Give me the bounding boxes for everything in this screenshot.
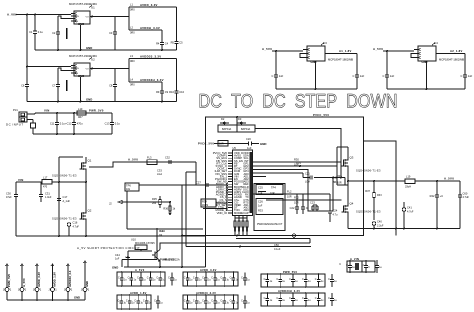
svg-text:1uF: 1uF	[258, 204, 263, 207]
svg-text:A2_1.8V: A2_1.8V	[450, 49, 463, 53]
svg-text:A_5V0: A_5V0	[128, 157, 138, 161]
ground rail left fets	[16, 235, 206, 237]
testpoint TP8	[402, 208, 406, 212]
svg-text:D3: D3	[238, 117, 242, 121]
wire L19 to output	[415, 180, 460, 182]
svg-text:C2: C2	[52, 31, 56, 35]
wire base y251	[128, 250, 152, 252]
wire routing y246.5	[186, 246, 311, 248]
capacitor C2	[57, 16, 59, 32]
svg-text:10R: 10R	[219, 143, 224, 146]
svg-text:GND: GND	[78, 22, 84, 26]
svg-text:VDD_IO: VDD_IO	[217, 211, 228, 215]
capacitor C1	[34, 15, 36, 32]
wire bottom connect	[127, 228, 203, 230]
svg-text:FL3: FL3	[147, 155, 152, 159]
resistor box R34	[201, 199, 216, 207]
svg-text:VIN: VIN	[75, 16, 79, 18]
wire Q3 drain up	[347, 147, 349, 156]
wire pwr_5v0 tap	[122, 259, 157, 261]
svg-text:C10: C10	[179, 90, 184, 94]
svg-text:+C: +C	[440, 194, 444, 198]
svg-text:C: C	[118, 277, 120, 280]
svg-text:C: C	[346, 264, 348, 267]
svg-text:PVCC_5V0: PVCC_5V0	[198, 141, 214, 145]
svg-text:C16: C16	[73, 221, 78, 225]
svg-text:A_1uF: A_1uF	[63, 200, 71, 203]
svg-text:4.7uF: 4.7uF	[463, 196, 470, 199]
svg-text:1uF: 1uF	[115, 258, 120, 261]
wire U1 output	[90, 16, 129, 18]
svg-text:C30: C30	[6, 192, 11, 196]
svg-text:DC TO DC STEP DOWN: DC TO DC STEP DOWN	[199, 92, 398, 113]
svg-text:Q4: Q4	[350, 202, 354, 206]
capacitor C6	[26, 67, 28, 85]
wire PJ1 pin2 ground drop	[27, 119, 33, 121]
snubber block boxes	[254, 184, 285, 231]
controller IC U5 body	[233, 150, 253, 216]
svg-text:AVDD_1.8V: AVDD_1.8V	[52, 272, 56, 287]
svg-text:AVDD_3.3V: AVDD_3.3V	[37, 272, 41, 287]
svg-text:PWR_5V0: PWR_5V0	[89, 109, 104, 113]
output wire	[436, 53, 465, 55]
wire x157 junction	[156, 251, 158, 260]
svg-text:C: C	[461, 74, 463, 78]
svg-text:LGA: LGA	[305, 181, 310, 184]
wire Q2 source	[85, 223, 87, 236]
svg-text:470u: 470u	[77, 121, 83, 125]
diode D2 BAT54	[222, 122, 227, 125]
svg-text:1R: 1R	[159, 234, 162, 237]
ground rail DC input	[33, 133, 112, 135]
inductor L4 wire AVDD33H	[129, 81, 162, 83]
transistor Q4 nfet	[343, 206, 345, 213]
junction column	[227, 182, 229, 184]
svg-text:0R0: 0R0	[130, 84, 135, 87]
svg-text:FL4: FL4	[159, 229, 164, 233]
svg-text:R34: R34	[202, 200, 207, 204]
svg-text:R31: R31	[337, 174, 342, 178]
svg-text:33uH: 33uH	[405, 186, 411, 189]
capacitor C4	[161, 30, 163, 42]
svg-text:AVDD33_3.3: AVDD33_3.3	[68, 270, 72, 287]
svg-text:0.1u: 0.1u	[38, 30, 44, 34]
IC right pins	[253, 161, 267, 163]
decoupling cap bank AVDD_3.3V	[183, 272, 238, 286]
transistor Q5 npn	[154, 252, 156, 259]
svg-text:+C12: +C12	[65, 121, 72, 125]
svg-text:1uF: 1uF	[258, 192, 263, 195]
wire U2 input loop	[58, 68, 71, 71]
wire HDRV to Q3 gate	[266, 161, 342, 163]
wire U2 output	[90, 68, 129, 70]
svg-text:R35: R35	[152, 197, 157, 201]
ground rail	[387, 88, 465, 90]
svg-text:MCP1804T-1802/MB: MCP1804T-1802/MB	[439, 58, 464, 62]
box TP6	[125, 183, 139, 191]
svg-text:GND: GND	[85, 281, 89, 287]
svg-text:L11: L11	[125, 255, 130, 259]
svg-text:C23: C23	[310, 201, 315, 205]
svg-text:L18: L18	[333, 176, 338, 180]
inductor L19	[405, 179, 415, 184]
svg-text:3R3: 3R3	[333, 181, 338, 184]
svg-text:C: C	[126, 300, 128, 303]
node branch vertical block2	[128, 59, 130, 83]
BAT54 box cells	[218, 125, 237, 132]
svg-text:U5: U5	[233, 146, 237, 150]
svg-text:D2: D2	[221, 117, 225, 121]
svg-text:A_5V0: A_5V0	[262, 47, 272, 51]
svg-text:R9: R9	[156, 90, 160, 94]
svg-text:GND: GND	[112, 265, 118, 269]
svg-text:C22: C22	[290, 206, 295, 210]
capacitor C42 output bulk	[436, 181, 438, 195]
ferrite FL1	[218, 141, 228, 147]
svg-text:C: C	[147, 277, 149, 280]
svg-text:C: C	[241, 277, 243, 280]
svg-text:0R0: 0R0	[130, 32, 135, 35]
svg-text:A_5V0: A_5V0	[444, 177, 454, 181]
voltage regulator U2 (MCP1725T-3302E/MC)	[74, 63, 90, 76]
svg-text:PWR_5V0: PWR_5V0	[7, 273, 11, 287]
svg-text:C: C	[276, 297, 278, 300]
svg-text:C: C	[134, 300, 136, 303]
svg-text:C7: C7	[52, 83, 56, 87]
IC left pins	[228, 152, 233, 154]
svg-text:4.7u: 4.7u	[333, 214, 338, 217]
svg-text:C17: C17	[63, 195, 68, 199]
svg-text:1uF: 1uF	[360, 74, 365, 78]
wire Q1 drain	[85, 157, 87, 159]
ground rail block1	[35, 49, 177, 51]
svg-text:C44: C44	[115, 253, 120, 257]
svg-text:VO: VO	[86, 16, 89, 18]
svg-text:AVDD33_3.3V: AVDD33_3.3V	[140, 55, 161, 59]
svg-text:TP6: TP6	[126, 184, 131, 188]
svg-text:VIN: VIN	[75, 68, 79, 70]
svg-text:C: C	[264, 278, 266, 281]
svg-text:Q3: Q3	[350, 156, 354, 160]
wire left y185 into IC	[175, 184, 227, 186]
svg-text:AVDD33H_3.3V: AVDD33H_3.3V	[140, 78, 164, 82]
svg-text:C: C	[220, 277, 222, 280]
svg-text:LGA: LGA	[157, 173, 162, 176]
svg-text:C21: C21	[305, 172, 310, 176]
wire VIN to U1	[16, 14, 71, 16]
wire vertical x186	[185, 172, 187, 247]
svg-text:C: C	[117, 300, 119, 303]
svg-text:C: C	[202, 300, 204, 303]
wire collector y243 to right	[162, 242, 310, 244]
svg-text:TP3: TP3	[296, 161, 301, 165]
output wire	[325, 53, 357, 55]
svg-text:PWR DESIGNATE KIT: PWR DESIGNATE KIT	[257, 223, 283, 226]
svg-text:AVDDH_3.3V: AVDDH_3.3V	[140, 26, 160, 30]
svg-text:C: C	[264, 297, 266, 300]
svg-text:C25: C25	[258, 185, 263, 189]
svg-text:1uF: 1uF	[247, 146, 252, 150]
test pin J5 AVDD_3.3V	[36, 264, 39, 266]
capacitor C31	[40, 182, 42, 194]
svg-text:C: C	[154, 300, 156, 303]
wire to boot cap loop	[266, 170, 333, 212]
svg-text:C3: C3	[109, 31, 113, 35]
wire Q3 drain feed	[337, 146, 348, 148]
svg-text:C: C	[272, 74, 274, 78]
wire pin drop column	[226, 183, 228, 211]
capacitor C32 series	[168, 160, 170, 164]
svg-text:AVDD_3.3V: AVDD_3.3V	[140, 3, 158, 7]
svg-text:C: C	[302, 297, 304, 300]
wire emitter down	[159, 261, 161, 268]
svg-text:AVDD_3.3V: AVDD_3.3V	[200, 268, 217, 272]
svg-text:C: C	[289, 297, 291, 300]
wire y172	[186, 171, 196, 173]
IC bottom pin junctions	[236, 235, 238, 237]
svg-text:GND: GND	[260, 142, 266, 146]
decoupling cap bank PWR_5V0	[261, 274, 325, 287]
svg-text:10R: 10R	[294, 201, 299, 204]
svg-text:C: C	[315, 278, 317, 281]
svg-text:MCP1804T-1802/MB: MCP1804T-1802/MB	[328, 58, 353, 62]
capacitor C12	[73, 113, 75, 122]
wire U1 ground	[80, 25, 82, 50]
svg-text:PWR_5V0: PWR_5V0	[160, 258, 175, 262]
wire BAT54 out right	[255, 129, 341, 178]
svg-text:R4: R4	[156, 41, 160, 45]
svg-text:4.7uF: 4.7uF	[73, 225, 80, 228]
svg-text:GND: GND	[74, 296, 80, 300]
svg-text:C8: C8	[109, 83, 113, 87]
svg-text:C20: C20	[246, 137, 251, 141]
resistor R35	[159, 196, 161, 200]
capacitor C11	[56, 113, 58, 122]
svg-text:BAT54A: BAT54A	[222, 128, 231, 131]
svg-text:C: C	[220, 300, 222, 303]
svg-text:47uF: 47uF	[6, 196, 12, 199]
node AVDD branch vertical	[128, 7, 130, 30]
svg-text:C13: C13	[105, 121, 110, 125]
svg-text:AVDD33_3.3V: AVDD33_3.3V	[196, 291, 216, 295]
switch U10 box	[135, 245, 147, 250]
capacitor C23 bank	[312, 205, 314, 207]
svg-text:R37: R37	[365, 189, 370, 193]
svg-text:49R9: 49R9	[202, 204, 209, 207]
ground rail protection	[124, 266, 206, 268]
ground rail	[276, 88, 357, 90]
svg-text:C: C	[184, 300, 186, 303]
svg-text:VIN: VIN	[44, 109, 50, 113]
svg-text:PVCC_5V0: PVCC_5V0	[313, 113, 329, 117]
capacitor C8 output	[114, 69, 116, 85]
svg-text:R33: R33	[258, 208, 263, 212]
wire x333 vertical	[332, 178, 334, 212]
wire Q1 source to Q2 drain	[85, 173, 87, 209]
svg-text:C40: C40	[377, 220, 382, 224]
test pin ground rail	[7, 299, 85, 301]
svg-text:C32: C32	[165, 155, 170, 159]
voltage regulator U1 (MCP1725T-3302E/MC)	[74, 11, 90, 24]
svg-text:PWR_5V0: PWR_5V0	[283, 270, 297, 274]
svg-text:C: C	[128, 277, 130, 280]
wire sense drop x157	[156, 228, 158, 251]
wire loop right x396	[364, 141, 397, 236]
svg-text:C5: C5	[179, 40, 183, 44]
svg-text:TP4: TP4	[271, 185, 276, 189]
wire y208.5	[203, 208, 227, 210]
wire DC input rail	[35, 112, 112, 114]
svg-text:A_VIN: A_VIN	[7, 13, 17, 17]
svg-text:DC INPUT: DC INPUT	[6, 122, 24, 126]
decoupling cap bank AVDD_1.8V	[117, 295, 151, 309]
svg-text:A_5V0: A_5V0	[135, 268, 145, 272]
svg-text:C: C	[137, 277, 139, 280]
diode D3 BAT54	[239, 122, 244, 125]
test pin J7 AVDD33_3.3	[67, 264, 70, 266]
svg-text:C: C	[383, 74, 385, 78]
decoupling cap bank AVDD33_3.3V	[183, 295, 238, 309]
svg-text:4.7uF: 4.7uF	[407, 210, 414, 213]
test pin J3 PWR_5V0	[6, 264, 9, 266]
svg-text:BAT54A: BAT54A	[241, 128, 250, 131]
svg-text:A_5V0: A_5V0	[22, 278, 26, 287]
svg-text:L19: L19	[406, 174, 411, 178]
svg-text:VO: VO	[86, 68, 89, 70]
inductor L2 wire AVDDH_3.3V	[129, 29, 162, 31]
svg-text:C: C	[184, 277, 186, 280]
capacitor C9	[161, 82, 163, 91]
svg-text:A_5V0: A_5V0	[373, 47, 383, 51]
svg-text:AVDD33H_3.3V: AVDD33H_3.3V	[278, 289, 300, 293]
svg-text:C6: C6	[21, 83, 25, 87]
svg-text:A_5V SHORT PROTECTION CIRCUIT: A_5V SHORT PROTECTION CIRCUIT	[77, 246, 140, 250]
electrolytic label C7 rotated	[66, 80, 68, 91]
capacitor C10	[176, 59, 178, 91]
inductor L3 wire AVDD33_3.3V	[129, 58, 177, 60]
testpoint TP7	[372, 222, 376, 226]
input capacitor	[275, 51, 277, 75]
outer routing box	[182, 117, 364, 267]
svg-text:GND: GND	[78, 74, 84, 78]
svg-text:VCAP: VCAP	[241, 211, 249, 215]
capacitor C3 output	[114, 17, 116, 32]
diode D1 input	[31, 123, 36, 128]
capacitor C44	[127, 251, 129, 267]
svg-text:C24: C24	[333, 209, 338, 213]
svg-text:PJ1: PJ1	[13, 108, 18, 112]
capacitor C43 output	[459, 181, 461, 195]
capacitor C30	[15, 182, 17, 194]
wire Q3 source to Q4 drain	[347, 170, 349, 202]
wire x59 column	[58, 157, 60, 236]
svg-text:GND: GND	[86, 46, 92, 50]
svg-text:C: C	[193, 277, 195, 280]
svg-text:C4: C4	[165, 41, 169, 45]
regulator IC U3	[307, 46, 325, 61]
wire pvcc	[214, 143, 243, 145]
svg-text:0R0: 0R0	[130, 60, 135, 63]
wire SW node to inductor	[348, 180, 405, 182]
input capacitor	[386, 51, 388, 75]
ground rail block2	[27, 101, 177, 103]
transistor Q2 nfet	[81, 213, 83, 220]
ferrite FL3	[147, 160, 157, 165]
svg-text:R10: R10	[169, 90, 174, 94]
wire U2 ground	[80, 77, 82, 102]
svg-text:C: C	[302, 278, 304, 281]
svg-text:2.2uF: 2.2uF	[377, 224, 384, 227]
ground rail right	[348, 228, 460, 230]
wire PJ1 pin1	[27, 113, 35, 115]
svg-text:0.1uF: 0.1uF	[274, 248, 281, 251]
regulator IC U4	[418, 46, 436, 61]
svg-text:SQD50N06-T1-E3: SQD50N06-T1-E3	[52, 217, 77, 221]
svg-text:1uF: 1uF	[279, 74, 284, 78]
svg-text:C: C	[328, 278, 330, 281]
wire VIN	[16, 181, 42, 183]
svg-text:AVDD_1.8V: AVDD_1.8V	[130, 291, 147, 295]
svg-text:FL2: FL2	[287, 190, 292, 194]
wire VIN to U2	[27, 66, 71, 68]
svg-text:C9: C9	[165, 90, 169, 94]
svg-text:C1: C1	[29, 30, 33, 34]
svg-text:C: C	[276, 278, 278, 281]
svg-text:10R: 10R	[287, 196, 292, 199]
svg-text:C: C	[211, 277, 213, 280]
wire BOOT y177.5 with C21	[303, 177, 310, 179]
svg-text:L17: L17	[43, 175, 48, 179]
svg-text:4R7: 4R7	[78, 116, 83, 119]
svg-text:A1_1.8V: A1_1.8V	[339, 49, 352, 53]
svg-text:C60: C60	[463, 191, 468, 195]
wire VIN feed down to U2	[26, 15, 28, 67]
testpoint TP9	[292, 234, 295, 237]
svg-text:0R0: 0R0	[130, 9, 135, 12]
svg-text:0.1u: 0.1u	[115, 121, 121, 125]
testpoint TP5	[67, 223, 71, 227]
svg-text:1uF: 1uF	[390, 74, 395, 78]
decoupling cap bank AVDD33H_3.3V	[261, 293, 325, 306]
svg-text:R42: R42	[430, 194, 435, 198]
svg-text:C41: C41	[407, 206, 412, 210]
svg-text:C: C	[289, 278, 291, 281]
svg-text:C: C	[315, 297, 317, 300]
svg-text:C: C	[306, 206, 308, 210]
capacitor C22	[296, 194, 298, 207]
wire vertical x182	[181, 185, 183, 267]
svg-text:R33: R33	[377, 194, 382, 197]
svg-text:1uF: 1uF	[468, 74, 473, 78]
svg-text:A_VIN: A_VIN	[350, 257, 359, 261]
test pin J6 AVDD_1.8V	[51, 264, 54, 266]
svg-text:C: C	[241, 300, 243, 303]
svg-text:C: C	[193, 300, 195, 303]
svg-text:10R: 10R	[270, 192, 275, 195]
capacitor C25b	[302, 194, 304, 207]
svg-text:SQD40N06-T1-E3: SQD40N06-T1-E3	[52, 173, 77, 177]
isolated cap group A_VIN	[347, 261, 362, 272]
svg-text:1.0uF: 1.0uF	[45, 196, 52, 199]
decoupling cap bank A_5V0	[117, 272, 165, 286]
svg-text:Q1: Q1	[88, 159, 92, 163]
svg-text:L10: L10	[78, 107, 83, 111]
svg-text:C: C	[168, 277, 170, 280]
wire x196 vertical	[195, 162, 197, 185]
svg-text:C33: C33	[157, 169, 162, 173]
svg-text:C50: C50	[274, 243, 279, 247]
test pin J8 GND	[84, 261, 87, 263]
